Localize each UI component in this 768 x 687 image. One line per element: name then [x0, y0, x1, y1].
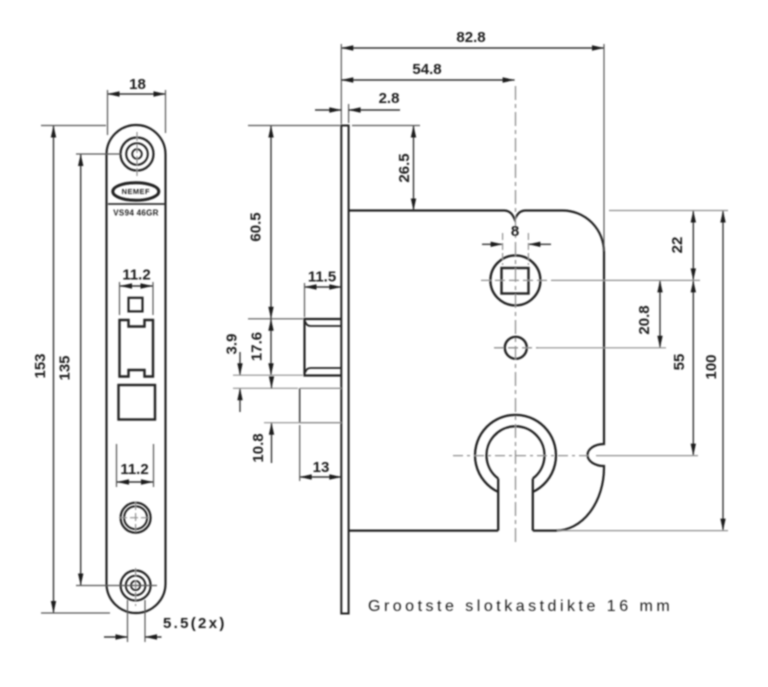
dim 20.8: [636, 280, 660, 347]
cylinder horizontal centreline: [453, 455, 588, 457]
dim 5.5(2x): [104, 600, 227, 642]
svg-text:26.5: 26.5: [396, 153, 413, 182]
dim 82.8: [341, 29, 604, 251]
svg-text:NEMEF: NEMEF: [122, 187, 150, 196]
lock case outline: [349, 211, 604, 531]
svg-text:20.8: 20.8: [636, 305, 653, 334]
svg-text:55: 55: [671, 354, 688, 371]
dim 18: [108, 76, 166, 135]
NEMEF logo oval: [113, 183, 159, 201]
cylinder hole outer: [475, 415, 556, 492]
dim 13: [300, 425, 342, 481]
spindle follower hole: [490, 255, 540, 305]
svg-text:100: 100: [703, 354, 720, 379]
dim 11.2 top: [120, 267, 154, 316]
centre pin hole: [505, 337, 527, 359]
svg-text:11.2: 11.2: [122, 267, 150, 284]
dim 3.9: [224, 334, 304, 412]
dim 17.6: [249, 319, 272, 375]
dim 22: [669, 211, 693, 281]
svg-text:60.5: 60.5: [248, 212, 265, 241]
svg-text:5.5(2x): 5.5(2x): [163, 615, 227, 632]
dim 55: [671, 280, 693, 455]
spindle square 8mm: [502, 268, 529, 294]
dim 135: [57, 154, 158, 586]
top screw hole: [121, 132, 154, 176]
svg-text:18: 18: [129, 76, 146, 93]
dim 26.5: [352, 126, 420, 211]
dim 2.8: [315, 90, 400, 123]
spindle crosshair: [481, 279, 551, 281]
svg-text:17.6: 17.6: [249, 332, 266, 361]
dim 60.5: [248, 126, 341, 319]
latch cutout: [120, 320, 154, 377]
svg-text:Grootste slotkastdikte 16 mm: Grootste slotkastdikte 16 mm: [368, 598, 673, 615]
cylinder slot: [497, 479, 499, 531]
cylinder hole inner: [487, 426, 545, 478]
deadbolt (side view, retracted): [300, 388, 342, 422]
svg-text:22: 22: [669, 237, 686, 254]
pin crosshair: [494, 347, 538, 349]
auxiliary square hole: [129, 298, 143, 312]
vertical centreline: [515, 86, 517, 546]
lower circular hole: [119, 502, 152, 533]
latch bolt (side view): [305, 319, 342, 376]
svg-text:54.8: 54.8: [412, 61, 441, 78]
lock case bottom edge: [349, 529, 499, 531]
svg-text:3.9: 3.9: [224, 334, 241, 355]
svg-text:135: 135: [57, 355, 74, 380]
svg-text:11.2: 11.2: [120, 461, 148, 478]
faceplate front outline: [107, 125, 166, 613]
svg-text:153: 153: [32, 353, 49, 378]
svg-text:2.8: 2.8: [379, 90, 400, 107]
dim 153: [32, 126, 110, 614]
dim 11.2 bottom: [117, 444, 154, 487]
dim 10.8: [250, 377, 341, 464]
svg-text:8: 8: [511, 223, 519, 240]
svg-text:11.5: 11.5: [308, 269, 336, 286]
extension lines right side: [538, 211, 728, 531]
dim 100: [703, 211, 723, 531]
stamp line: [108, 203, 165, 205]
svg-text:82.8: 82.8: [456, 29, 485, 46]
dim 54.8: [341, 61, 514, 80]
faceplate side view: [341, 126, 348, 614]
svg-text:13: 13: [313, 459, 330, 476]
deadbolt square hole: [119, 385, 156, 420]
dim 11.5: [305, 269, 342, 318]
dim 8: [482, 223, 551, 265]
svg-text:VS94 46GR: VS94 46GR: [113, 209, 158, 218]
bottom screw hole: [121, 568, 151, 606]
svg-text:10.8: 10.8: [250, 433, 267, 462]
